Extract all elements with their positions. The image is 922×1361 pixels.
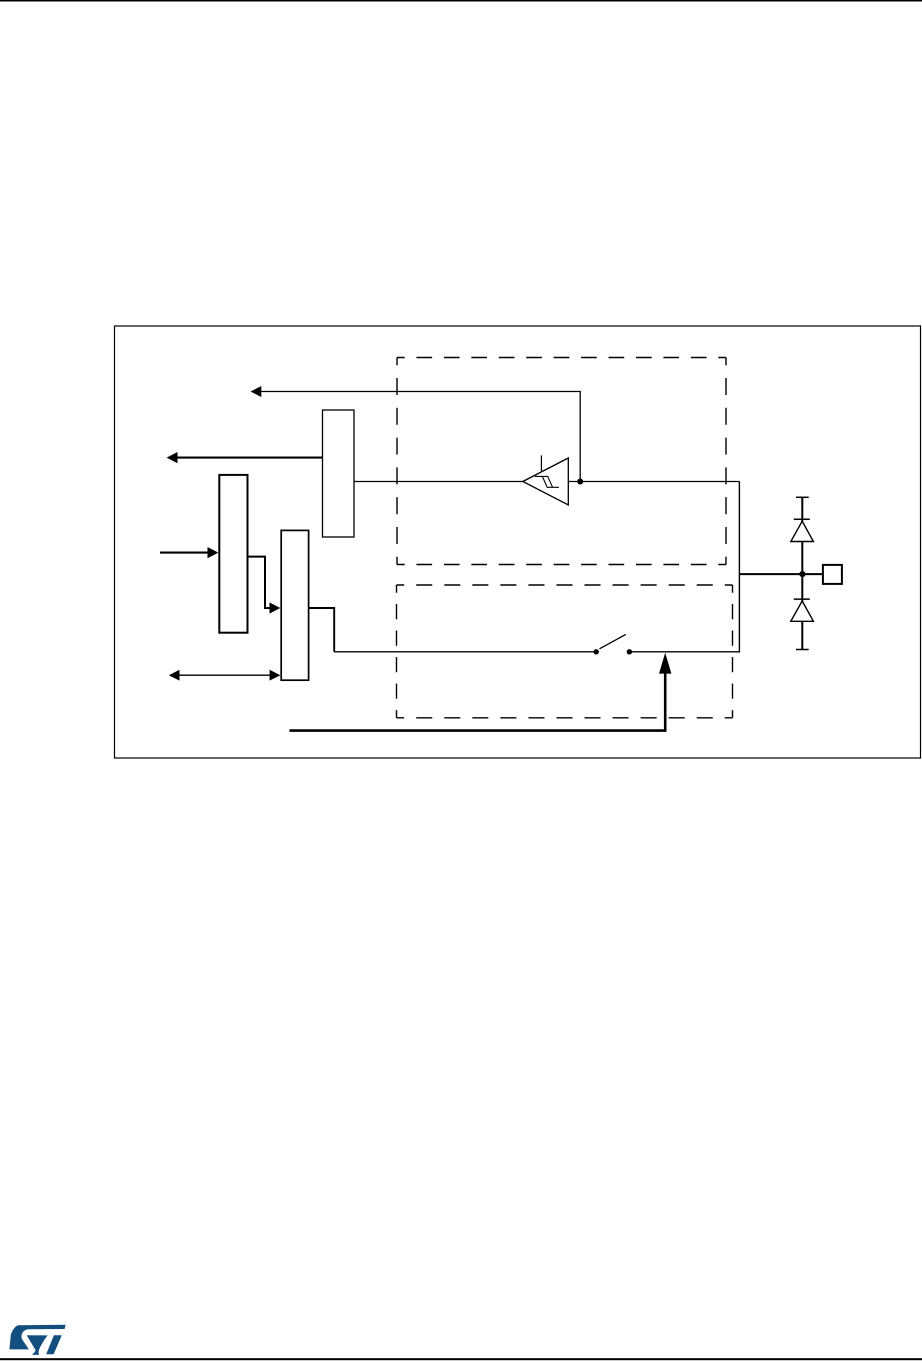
protection diode rail	[801, 497, 803, 649]
node dot	[577, 479, 583, 485]
diode D2	[791, 601, 814, 621]
bottom page rule	[0, 1358, 922, 1360]
dashed box: pull-up/pull-down block (bottom)	[397, 585, 733, 718]
VSS tick	[796, 649, 809, 651]
top page rule	[0, 0, 922, 2]
diode D1	[791, 521, 814, 541]
thick control line at bottom	[290, 729, 667, 732]
hysteresis glyph	[535, 476, 559, 487]
up arrow to switch	[664, 671, 667, 731]
diode D1 cathode bar	[794, 518, 810, 520]
op-amp U1: Schmitt trigger triangle	[523, 458, 569, 505]
arrow into R2	[160, 552, 209, 554]
thick arrow from R1 to left	[176, 457, 323, 459]
diode D2 cathode bar	[794, 598, 810, 600]
right vertical wire	[738, 482, 740, 653]
wire R3 to switch	[309, 608, 334, 652]
register block R3	[281, 530, 308, 680]
figure frame	[115, 326, 921, 758]
wire: input line to Schmitt trigger	[354, 481, 523, 483]
trigger control tick	[540, 455, 542, 471]
double-headed arrow	[177, 674, 271, 676]
register block R1 (input data register)	[323, 410, 355, 537]
junction node	[799, 571, 805, 577]
wire to I/O pad	[739, 573, 822, 575]
wire: switch to right vertical	[629, 651, 740, 653]
dashed box: input driver (top)	[397, 358, 726, 565]
register block R2	[219, 475, 247, 633]
wire: trigger output to right vertical	[568, 481, 739, 483]
wire: feedback line to top-left arrow	[260, 392, 580, 482]
I/O pad square	[823, 565, 842, 584]
switch SW1 (pull-up/pull-down switch)	[594, 634, 633, 654]
step wire R2 to R3 with arrowhead	[249, 557, 271, 608]
arrowhead left (top arrow)	[251, 386, 262, 397]
ST logo	[9, 1325, 65, 1355]
VDD tick	[796, 496, 809, 498]
